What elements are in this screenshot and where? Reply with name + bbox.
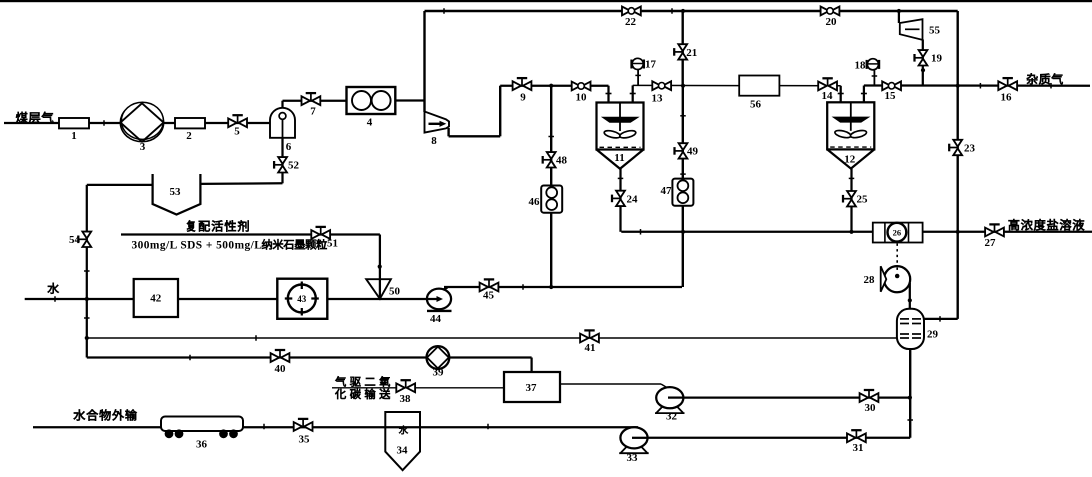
label impurity gas	[1027, 73, 1063, 84]
wire surfactant line	[121, 235, 380, 298]
svg-text:46: 46	[529, 196, 541, 208]
svg-text:300mg/L SDS + 500mg/L: 300mg/L SDS + 500mg/L	[132, 239, 263, 251]
wire coalbed gas feed line	[4, 122, 270, 124]
svg-text:51: 51	[327, 238, 338, 250]
svg-text:47: 47	[661, 185, 673, 197]
unit 1 inline element	[59, 118, 89, 142]
unit 37	[504, 372, 560, 402]
svg-text:40: 40	[275, 363, 287, 375]
svg-text:29: 29	[927, 329, 939, 341]
unit 56	[739, 76, 779, 111]
wire flue 8 outlet	[449, 86, 501, 137]
svg-text:14: 14	[822, 90, 834, 102]
mixer 43	[277, 279, 327, 319]
svg-text:23: 23	[964, 143, 976, 155]
svg-text:37: 37	[526, 382, 538, 394]
border bar	[0, 0, 1092, 2]
wire top recycle line	[425, 10, 958, 12]
svg-text:41: 41	[585, 342, 596, 354]
svg-text:52: 52	[288, 160, 300, 172]
wire valve 54 column	[86, 185, 88, 358]
wire pump 33 discharge	[634, 437, 910, 439]
wire tank 53 inlet left	[87, 184, 153, 186]
funnel 50	[366, 279, 400, 299]
svg-text:22: 22	[625, 16, 637, 28]
unit 42	[134, 279, 178, 317]
pump 33	[619, 427, 649, 464]
svg-text:2: 2	[186, 130, 192, 142]
valve 21	[674, 44, 697, 59]
svg-text:24: 24	[627, 194, 639, 206]
wire brine line	[621, 231, 1092, 233]
valve 48	[543, 152, 568, 167]
wire fan 55 riser	[898, 11, 900, 23]
valve 7	[302, 93, 321, 117]
pump 32	[655, 387, 685, 422]
valve 14	[818, 78, 837, 102]
valve 35	[294, 419, 313, 446]
valve 45	[480, 279, 499, 301]
valve 5	[228, 115, 247, 137]
svg-text:12: 12	[844, 154, 856, 166]
flow unit 26	[873, 223, 923, 243]
svg-text:26: 26	[893, 228, 902, 238]
svg-text:15: 15	[885, 90, 897, 102]
wire gauge 17 stem	[637, 70, 639, 86]
valve 54	[69, 232, 91, 247]
wire CO2 feed line	[332, 387, 504, 389]
svg-text:25: 25	[857, 194, 869, 206]
svg-text:17: 17	[645, 59, 657, 71]
svg-text:38: 38	[400, 393, 412, 405]
svg-text:16: 16	[1001, 92, 1013, 104]
wire tank 12 bottom outlet	[850, 168, 852, 232]
wire riser to flue 8	[423, 11, 425, 112]
svg-text:5: 5	[234, 126, 240, 138]
valve 24	[612, 191, 638, 206]
svg-text:50: 50	[389, 286, 401, 298]
svg-text:32: 32	[666, 411, 678, 423]
svg-text:45: 45	[483, 290, 495, 302]
wire column 47	[682, 86, 684, 287]
truck 36	[161, 417, 243, 451]
label CO2 transport	[335, 376, 390, 399]
wire separator 6 top line	[283, 101, 347, 108]
label brine product	[1009, 219, 1085, 230]
svg-text:48: 48	[556, 155, 568, 167]
svg-text:39: 39	[433, 367, 445, 379]
svg-text:4: 4	[367, 117, 373, 129]
dotted signal 26 to 28	[895, 244, 900, 277]
tank 53	[153, 174, 201, 215]
valve 23	[949, 140, 975, 155]
svg-text:27: 27	[985, 237, 997, 249]
svg-text:36: 36	[196, 439, 208, 451]
svg-text:34: 34	[397, 445, 409, 457]
svg-text:9: 9	[520, 92, 526, 104]
svg-text:19: 19	[931, 53, 943, 65]
wire vessel 29 side outlet	[924, 318, 958, 320]
svg-text:3: 3	[140, 141, 146, 153]
wire column 46	[550, 86, 552, 287]
unit 2 inline element	[175, 118, 205, 142]
svg-text:35: 35	[299, 434, 311, 446]
valve 41	[580, 330, 599, 354]
label surfactant recipe	[132, 239, 327, 251]
label surfactant title	[187, 220, 249, 231]
vessel 29	[897, 309, 939, 349]
valve 31	[847, 430, 866, 454]
svg-text:11: 11	[614, 152, 624, 164]
svg-text:30: 30	[865, 402, 877, 414]
svg-text:28: 28	[864, 274, 876, 286]
valve 40	[271, 350, 290, 375]
wire slurry line 40	[87, 358, 532, 373]
svg-text:10: 10	[576, 92, 588, 104]
svg-text:20: 20	[826, 16, 838, 28]
svg-text:43: 43	[297, 294, 307, 304]
valve 16	[998, 78, 1017, 103]
wire vessel 29 bottom column	[909, 349, 911, 438]
flue nozzle 8	[425, 112, 450, 148]
valve 52	[274, 157, 299, 172]
label hydrate export	[74, 409, 137, 420]
valve 19	[915, 50, 943, 65]
wire tank 12 overhead	[864, 86, 1090, 103]
wire valve 21 column	[682, 11, 684, 86]
wire tank 11 bottom outlet	[619, 169, 621, 232]
svg-text:21: 21	[686, 47, 697, 59]
roots blower 4	[347, 87, 396, 129]
wire pump 32 discharge	[670, 396, 910, 398]
pump 44	[427, 288, 452, 326]
wire gas line to tank 11	[500, 86, 608, 103]
svg-text:42: 42	[150, 293, 162, 305]
valve 15	[882, 81, 901, 102]
wire water feed line	[25, 298, 437, 300]
valve 49	[675, 143, 699, 158]
svg-text:7: 7	[310, 106, 316, 118]
label water	[48, 283, 59, 294]
svg-text:31: 31	[853, 442, 864, 454]
wire slurry line 41	[87, 337, 897, 339]
valve 13	[652, 81, 672, 104]
reactor tank 11	[597, 94, 644, 169]
svg-text:49: 49	[687, 146, 699, 158]
svg-text:33: 33	[627, 452, 639, 464]
valve 38	[396, 380, 415, 405]
wire tank 11 overhead	[633, 85, 841, 102]
wire blower 4 outlet	[395, 99, 424, 101]
svg-text:6: 6	[286, 141, 292, 153]
separator 6	[270, 108, 295, 153]
valve 30	[860, 390, 879, 414]
gauge 17	[632, 58, 657, 70]
valve 9	[513, 78, 532, 103]
wire main right vertical	[957, 11, 959, 319]
wire separator 6 drain	[200, 138, 282, 184]
rotameter 47	[661, 179, 694, 206]
valve 22	[622, 7, 641, 29]
svg-text:1: 1	[71, 130, 77, 142]
valve 20	[821, 7, 840, 29]
wire unit 37 outlet	[560, 384, 669, 389]
hopper 34	[385, 412, 420, 470]
pump 39	[427, 346, 450, 378]
svg-text:56: 56	[750, 99, 762, 111]
fan 55	[900, 19, 941, 40]
svg-text:53: 53	[170, 186, 182, 198]
wire gauge 18 stem	[873, 70, 875, 85]
valve 51	[311, 227, 338, 250]
label coalbed gas	[16, 112, 53, 124]
svg-text:55: 55	[929, 25, 941, 37]
valve 25	[843, 191, 868, 206]
svg-text:13: 13	[652, 93, 664, 105]
wire hydrate export line	[33, 426, 638, 428]
svg-text:8: 8	[431, 135, 437, 147]
valve 10	[572, 82, 591, 104]
valve 27	[985, 224, 1004, 249]
gauge 18	[855, 59, 880, 72]
wire fan 55 outlet	[922, 40, 924, 86]
compressor 3	[120, 102, 163, 153]
rotameter 46	[529, 186, 563, 213]
blower 28	[864, 266, 911, 292]
svg-text:18: 18	[855, 60, 867, 72]
svg-text:54: 54	[69, 234, 81, 246]
svg-text:44: 44	[430, 313, 442, 325]
wire pump 28 to vessel 29	[909, 283, 911, 310]
wire pump 44 discharge	[444, 286, 682, 288]
reactor tank 12	[827, 94, 874, 169]
